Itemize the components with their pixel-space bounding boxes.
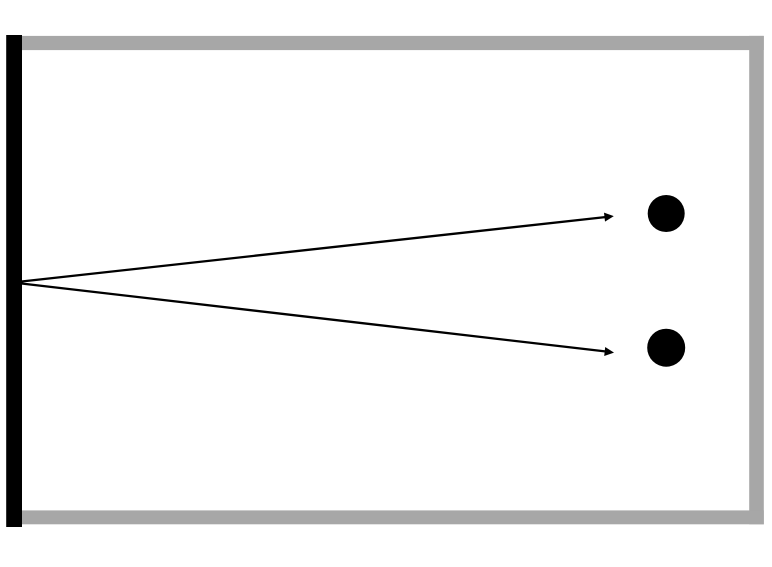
upper dot bbox=[648, 195, 685, 232]
gray frame right bar bbox=[749, 36, 764, 524]
upper ray wire bbox=[22, 217, 606, 281]
upper ray arrowhead bbox=[604, 213, 614, 222]
lower dot bbox=[647, 329, 685, 367]
black barrier bar (left) bbox=[6, 35, 22, 527]
lower ray arrowhead bbox=[604, 347, 614, 356]
gray frame top bar bbox=[22, 36, 764, 50]
lower ray wire bbox=[22, 284, 606, 352]
gray frame bottom bar bbox=[22, 510, 764, 524]
